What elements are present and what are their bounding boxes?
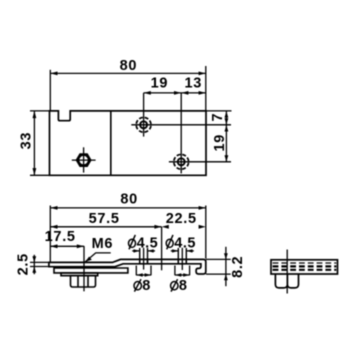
svg-text:19: 19: [151, 76, 169, 92]
dim 8.2 extension lines: [206, 258, 231, 260]
left extension line: [49, 206, 51, 262]
svg-text:8.2: 8.2: [230, 256, 246, 278]
dim phi4.5 #1 label: [129, 235, 159, 252]
plate profile with joggle and right hook: [49, 259, 206, 274]
hex nut side view: [71, 276, 96, 287]
dim phi4.5 #2 ticks and arrows: [177, 248, 179, 264]
dim 80 (top) line: [50, 72, 206, 74]
dim 17.5 line: [50, 245, 84, 247]
hole A solid circle: [140, 121, 147, 128]
slider strip under plate: [54, 268, 128, 273]
dim 80 (top) extension lines: [49, 70, 51, 111]
hole A walls in side view: [139, 259, 141, 263]
dim phi4.5 #2 label: [166, 235, 196, 252]
hole B centerline (side view): [181, 248, 183, 270]
M6 leader: [85, 253, 111, 262]
dim 57.5 line: [50, 226, 161, 228]
M6 centerline (side view): [83, 246, 85, 291]
svg-text:80: 80: [120, 58, 138, 74]
svg-text:13: 13: [185, 76, 203, 92]
dim 19 right arrows: [225, 155, 229, 162]
end view outer rectangle: [271, 260, 338, 274]
M6 hex hole: [79, 155, 89, 165]
svg-text:33: 33: [19, 132, 35, 150]
svg-text:19: 19: [212, 134, 228, 152]
end view nut tabs: [275, 274, 298, 288]
dim phi4.5 #1 ticks and arrows: [139, 248, 141, 264]
dim 19/13 line: [144, 92, 206, 94]
dim 80 (bottom) line: [50, 207, 206, 209]
svg-text:4.5: 4.5: [174, 235, 196, 251]
hole A centerlines: [143, 93, 145, 137]
end view hidden dashed line upper: [273, 262, 337, 264]
dim phi8 #1 ticks: [135, 266, 137, 276]
spacer strip: [61, 273, 98, 276]
hole B solid circle: [178, 158, 185, 165]
svg-text:57.5: 57.5: [89, 211, 120, 227]
svg-text:8: 8: [142, 278, 151, 294]
dim 33 extension lines: [30, 110, 49, 112]
svg-text:80: 80: [120, 191, 138, 207]
right extension line from top edge: [206, 110, 232, 112]
hole B centerlines: [180, 93, 182, 173]
dim 2.5 extension ticks: [30, 261, 48, 263]
svg-text:22.5: 22.5: [166, 211, 197, 227]
svg-text:7: 7: [210, 113, 226, 122]
svg-text:M6: M6: [92, 236, 114, 252]
internal divider line: [110, 111, 112, 175]
hole B walls in side view: [177, 259, 179, 263]
dim phi8 #1 arrows: [136, 274, 151, 276]
dim 8.2 line + arrows: [225, 247, 227, 286]
dim phi8 #2 ticks: [174, 266, 176, 276]
right extension line: [205, 206, 207, 259]
svg-text:17.5: 17.5: [45, 229, 76, 245]
dim 22.5 line + arrows: [162, 225, 169, 229]
dim 2.5 line + arrows: [33, 255, 35, 274]
svg-text:8: 8: [179, 278, 188, 294]
M6 centerlines: [83, 147, 85, 172]
hole B dashed circle: [174, 154, 189, 169]
dim phi8 #1 text: [134, 278, 151, 294]
dim 7 line (right side): [225, 111, 227, 162]
dim 33 line: [33, 111, 35, 175]
dim phi8 #2 text: [171, 278, 188, 294]
end view hidden dashed line lower (thick): [273, 265, 337, 267]
dim phi8 #2 arrows: [175, 274, 190, 276]
svg-text:2.5: 2.5: [16, 253, 32, 275]
middle extension line (22.5/57.5 boundary): [161, 227, 163, 270]
hole A centerline (side view): [143, 248, 145, 270]
end view centerline: [286, 250, 288, 294]
plate outline with notch: [50, 111, 207, 175]
hole A dashed circle (counterbore): [136, 117, 151, 132]
end view hidden dashed line third: [273, 269, 337, 271]
